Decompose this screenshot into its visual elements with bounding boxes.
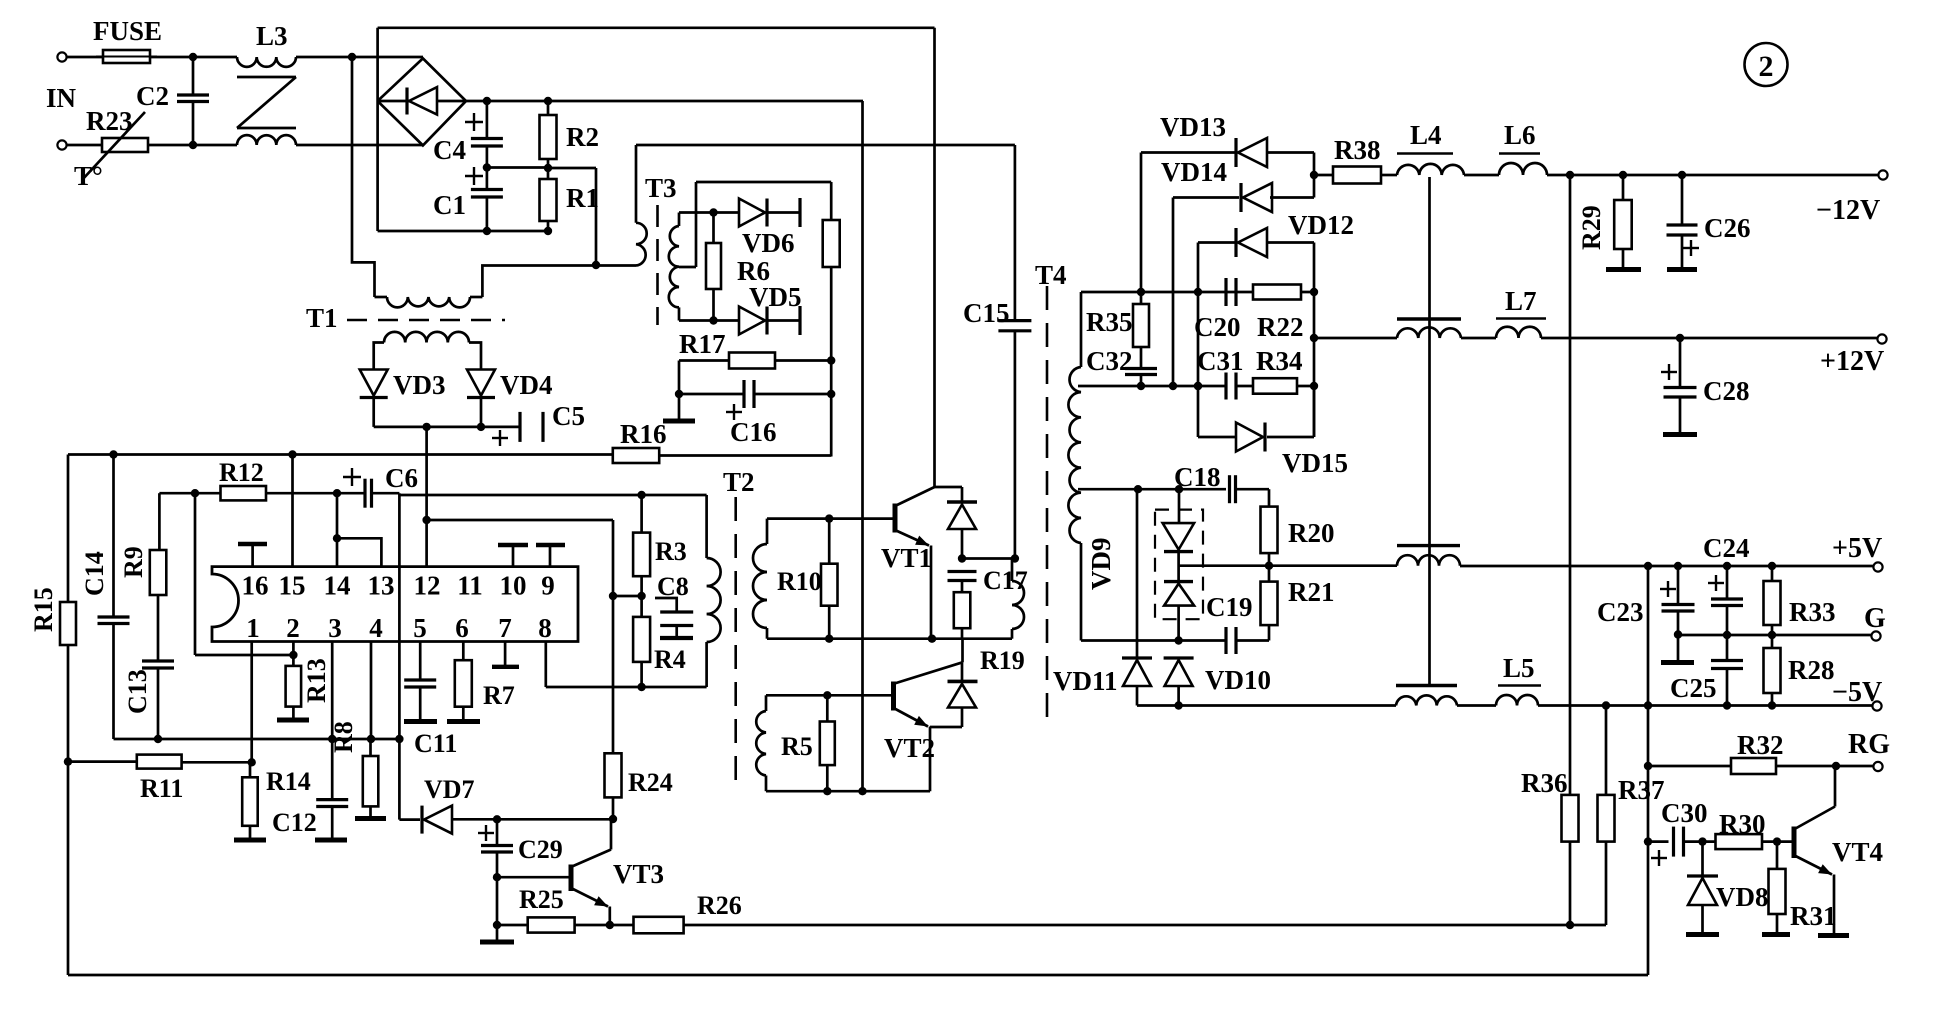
svg-text:R5: R5 [781,732,813,761]
svg-text:VD8: VD8 [1716,882,1769,912]
svg-text:VD9: VD9 [1086,538,1116,591]
svg-text:R8: R8 [329,721,358,753]
svg-text:VT2: VT2 [884,733,935,763]
svg-text:R31: R31 [1790,901,1837,931]
svg-text:VD12: VD12 [1288,210,1354,240]
svg-text:−12V: −12V [1816,195,1880,226]
svg-text:12: 12 [414,571,441,601]
svg-text:T3: T3 [645,173,677,203]
svg-text:VT1: VT1 [881,543,932,573]
svg-text:R13: R13 [302,658,331,703]
svg-text:R33: R33 [1789,597,1836,627]
svg-text:T2: T2 [723,467,755,497]
svg-text:6: 6 [455,613,469,643]
svg-text:C13: C13 [123,669,152,714]
svg-text:R1: R1 [566,183,599,213]
svg-text:R28: R28 [1788,655,1835,685]
svg-text:R29: R29 [1577,205,1606,250]
svg-text:C6: C6 [385,463,418,493]
svg-text:C23: C23 [1597,597,1644,627]
svg-text:C31: C31 [1197,346,1244,376]
svg-text:C16: C16 [730,417,777,447]
svg-text:VD10: VD10 [1205,665,1271,695]
svg-text:R34: R34 [1256,346,1303,376]
svg-text:L5: L5 [1503,653,1535,683]
svg-text:C17: C17 [983,566,1028,595]
svg-text:C19: C19 [1206,592,1253,622]
svg-text:VT3: VT3 [613,859,664,889]
svg-text:C4: C4 [433,135,466,165]
svg-text:T°: T° [74,161,103,191]
svg-text:7: 7 [498,613,512,643]
svg-text:10: 10 [500,571,527,601]
svg-text:C30: C30 [1661,798,1708,828]
svg-text:VT4: VT4 [1832,837,1883,867]
svg-text:4: 4 [369,613,383,643]
svg-text:C15: C15 [963,298,1010,328]
svg-text:R16: R16 [620,419,667,449]
svg-text:3: 3 [328,613,342,643]
svg-text:R3: R3 [655,537,687,566]
svg-text:R9: R9 [119,546,148,578]
svg-text:R7: R7 [483,681,515,710]
svg-text:R19: R19 [980,646,1025,675]
svg-text:C28: C28 [1703,376,1750,406]
svg-text:R36: R36 [1521,768,1568,798]
svg-text:14: 14 [324,571,351,601]
svg-text:1: 1 [246,613,260,643]
svg-text:5: 5 [413,613,427,643]
svg-text:R20: R20 [1288,518,1335,548]
svg-text:C18: C18 [1174,462,1221,492]
svg-text:C25: C25 [1670,673,1717,703]
svg-text:R32: R32 [1737,730,1784,760]
svg-text:G: G [1864,603,1886,634]
svg-text:L6: L6 [1504,120,1536,150]
svg-text:VD13: VD13 [1160,112,1226,142]
svg-text:C14: C14 [80,551,109,596]
svg-text:C29: C29 [518,835,563,864]
svg-text:VD7: VD7 [424,775,475,804]
svg-text:16: 16 [242,571,269,601]
svg-text:2: 2 [286,613,300,643]
svg-text:T4: T4 [1035,260,1067,290]
svg-text:C11: C11 [414,729,457,758]
svg-text:C5: C5 [552,401,585,431]
svg-text:C26: C26 [1704,213,1751,243]
svg-text:C2: C2 [136,81,169,111]
svg-text:L3: L3 [256,21,288,51]
svg-text:R15: R15 [29,587,58,632]
svg-text:R12: R12 [219,458,264,487]
svg-text:R22: R22 [1257,312,1304,342]
svg-text:8: 8 [538,613,552,643]
svg-text:C12: C12 [272,808,317,837]
svg-text:VD3: VD3 [393,370,446,400]
svg-text:L4: L4 [1410,120,1442,150]
svg-text:R26: R26 [697,891,742,920]
svg-text:R38: R38 [1334,135,1381,165]
svg-text:2: 2 [1759,50,1774,83]
svg-text:C20: C20 [1194,312,1241,342]
svg-text:FUSE: FUSE [93,16,162,46]
svg-text:−5V: −5V [1832,677,1882,708]
svg-text:R17: R17 [679,329,726,359]
svg-text:+12V: +12V [1820,346,1884,377]
svg-text:R30: R30 [1719,809,1766,839]
svg-text:R21: R21 [1288,577,1335,607]
svg-text:VD4: VD4 [500,370,553,400]
svg-text:13: 13 [368,571,395,601]
svg-text:VD11: VD11 [1053,666,1118,696]
svg-text:VD5: VD5 [749,282,802,312]
svg-text:R2: R2 [566,122,599,152]
svg-text:9: 9 [541,571,555,601]
svg-text:+5V: +5V [1832,533,1882,564]
svg-text:15: 15 [279,571,306,601]
svg-text:T1: T1 [306,303,338,333]
svg-text:R25: R25 [519,885,564,914]
svg-text:VD6: VD6 [742,228,795,258]
svg-text:R35: R35 [1086,307,1133,337]
svg-text:R4: R4 [654,645,686,674]
svg-text:C1: C1 [433,190,466,220]
svg-text:C32: C32 [1086,346,1133,376]
svg-text:RG: RG [1848,729,1890,760]
svg-text:C24: C24 [1703,533,1750,563]
svg-text:IN: IN [46,83,77,113]
svg-text:R37: R37 [1618,775,1665,805]
svg-text:L7: L7 [1505,286,1537,316]
svg-text:VD15: VD15 [1282,448,1348,478]
svg-text:R10: R10 [777,567,822,596]
svg-text:R11: R11 [140,774,183,803]
svg-text:11: 11 [457,571,483,601]
svg-text:R14: R14 [266,767,311,796]
svg-text:R24: R24 [628,768,673,797]
svg-text:VD14: VD14 [1161,157,1227,187]
